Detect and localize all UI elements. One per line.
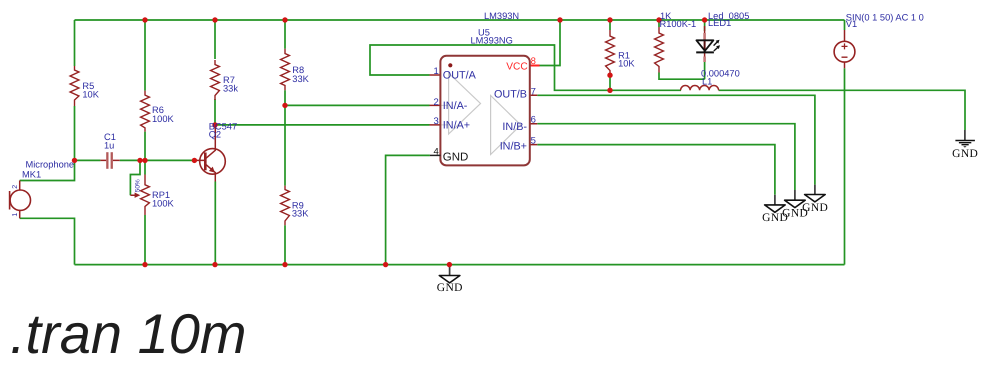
svg-text:GND: GND — [443, 151, 469, 163]
svg-text:2: 2 — [12, 185, 19, 189]
svg-text:GND: GND — [802, 202, 828, 214]
svg-text:LM393N: LM393N — [484, 11, 519, 21]
svg-text:SIN(0 1 50) AC 1 0: SIN(0 1 50) AC 1 0 — [846, 13, 924, 23]
svg-text:Microphone: Microphone — [26, 159, 75, 169]
svg-text:8: 8 — [531, 56, 536, 67]
svg-text:.tran 10m: .tran 10m — [10, 302, 247, 365]
svg-text:7: 7 — [531, 86, 536, 97]
svg-text:1: 1 — [12, 213, 19, 217]
svg-text:L1: L1 — [702, 76, 712, 86]
svg-text:IN/B+: IN/B+ — [500, 141, 527, 153]
svg-text:V1: V1 — [846, 19, 857, 29]
svg-text:IN/A+: IN/A+ — [443, 120, 470, 132]
svg-text:GND: GND — [437, 282, 463, 294]
svg-text:6: 6 — [531, 115, 536, 126]
svg-text:5: 5 — [531, 136, 536, 147]
svg-text:MK1: MK1 — [22, 169, 41, 179]
svg-text:3: 3 — [434, 116, 439, 127]
svg-text:OUT/B: OUT/B — [494, 89, 527, 101]
svg-text:50%: 50% — [135, 179, 142, 192]
svg-text:Q2: Q2 — [209, 130, 221, 140]
svg-text:GND: GND — [952, 148, 978, 160]
svg-text:1u: 1u — [104, 141, 114, 151]
svg-text:4: 4 — [434, 147, 439, 158]
svg-text:2: 2 — [434, 97, 439, 108]
svg-text:33K: 33K — [292, 74, 309, 84]
svg-text:33K: 33K — [292, 209, 309, 219]
svg-text:OUT/A: OUT/A — [443, 70, 477, 82]
svg-text:10K: 10K — [82, 90, 99, 100]
svg-text:R100K-1: R100K-1 — [660, 19, 697, 29]
svg-text:VCC: VCC — [506, 61, 528, 72]
svg-text:33k: 33k — [223, 84, 238, 94]
svg-text:100K: 100K — [152, 114, 175, 124]
svg-text:LED1: LED1 — [708, 18, 731, 28]
svg-text:LM393NG: LM393NG — [471, 36, 513, 46]
svg-text:10K: 10K — [618, 59, 635, 69]
svg-text:1: 1 — [434, 66, 439, 77]
svg-text:IN/B-: IN/B- — [502, 121, 527, 133]
svg-text:IN/A-: IN/A- — [443, 100, 468, 112]
svg-text:100K: 100K — [152, 199, 175, 209]
